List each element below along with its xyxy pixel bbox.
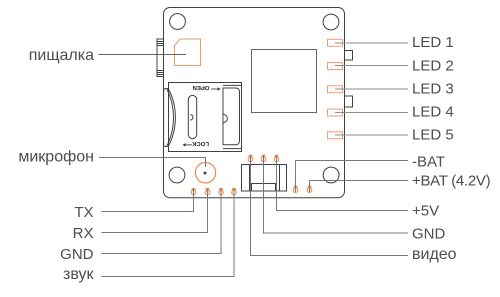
wire LED 2 [335, 65, 408, 67]
camera module square [252, 50, 317, 113]
wire LED 5 [335, 134, 408, 136]
wire RX [102, 189, 208, 233]
pad +5V (pin symbol) [274, 155, 279, 161]
pad видео (pin symbol) [248, 155, 253, 161]
svg-text:пищалка: пищалка [29, 47, 94, 64]
LOCK arrow [183, 144, 192, 147]
SIM tray [223, 88, 240, 145]
wire LED 4 [335, 112, 408, 114]
LOCK text (rotated) [191, 140, 209, 147]
wire LED 1 [335, 42, 408, 44]
svg-text:микрофон: микрофон [18, 149, 94, 166]
bottom connector [242, 165, 287, 192]
mounting hole bottom-right [323, 167, 339, 183]
mounting hole top-right [323, 14, 339, 30]
wire видео [251, 155, 409, 255]
OPEN text (rotated) [192, 84, 209, 91]
SIM holder body [164, 83, 242, 152]
svg-text:RX: RX [73, 225, 94, 242]
svg-text:+BAT (4.2V): +BAT (4.2V) [412, 173, 491, 190]
wire to пищалка label [99, 54, 187, 56]
pad звук (pin symbol) [232, 189, 237, 195]
wire GND left [102, 189, 222, 254]
svg-text:LOCK: LOCK [191, 140, 209, 147]
right edge tab 2 [345, 96, 353, 107]
right edge tab 1 [345, 51, 353, 61]
microphone (orange circle with dot) [195, 163, 215, 183]
buzzer highlight (orange square with cut corner) [175, 39, 201, 66]
svg-text:GND: GND [412, 225, 446, 242]
wire GND right [264, 155, 409, 233]
pad +BAT (pin symbol) [307, 186, 312, 192]
svg-text:LED 2: LED 2 [412, 57, 454, 74]
pad GND right (pin symbol) [261, 155, 266, 161]
LED pad 5 [328, 132, 343, 139]
wire TX [102, 189, 194, 212]
pad TX (pin symbol) [191, 189, 196, 195]
wire -BAT [296, 161, 409, 193]
SIM holder slot [188, 95, 196, 138]
svg-text:LED 3: LED 3 [412, 80, 454, 97]
wire +BAT [310, 181, 409, 193]
svg-text:LED 4: LED 4 [412, 104, 454, 121]
svg-text:OPEN: OPEN [192, 84, 209, 91]
wire +5V [277, 155, 409, 210]
svg-text:TX: TX [74, 204, 93, 221]
svg-text:-BAT: -BAT [412, 153, 445, 170]
svg-text:видео: видео [412, 246, 457, 263]
pad -BAT (pin symbol) [293, 186, 298, 192]
OPEN arrow [211, 88, 220, 91]
wire to микрофон label [99, 158, 206, 168]
svg-text:GND: GND [60, 246, 94, 263]
mounting hole bottom-left [169, 167, 185, 183]
wire LED 3 [335, 88, 408, 90]
svg-text:LED 5: LED 5 [412, 127, 454, 144]
LED pad 3 [328, 86, 343, 93]
svg-text:+5V: +5V [412, 203, 439, 220]
pad GND left (pin symbol) [219, 189, 224, 195]
left edge connector [157, 39, 164, 77]
svg-text:LED 1: LED 1 [412, 34, 454, 51]
LED pad 2 [328, 63, 343, 70]
svg-text:звук: звук [63, 266, 94, 283]
LED pad 1 [328, 39, 343, 46]
mounting hole top-left [170, 14, 186, 30]
wire звук [102, 189, 235, 277]
SIM holder side oval [164, 89, 176, 147]
pad RX (pin symbol) [205, 189, 210, 195]
board outline [164, 8, 345, 198]
LED pad 4 [328, 109, 343, 116]
